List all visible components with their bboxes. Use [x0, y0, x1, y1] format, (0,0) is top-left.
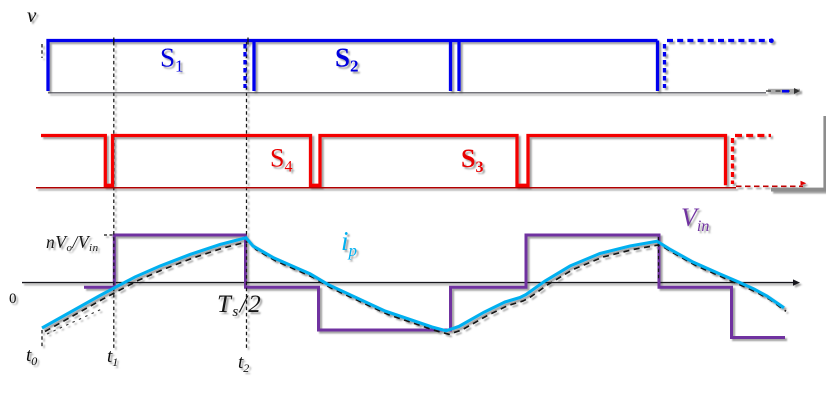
svg-text:S4: S4	[270, 144, 292, 176]
svg-text:t1: t1	[107, 346, 118, 369]
svg-text:0: 0	[9, 291, 17, 307]
svg-text:t2: t2	[238, 352, 249, 375]
svg-text:v: v	[27, 3, 37, 27]
svg-text:S3: S3	[461, 144, 483, 176]
svg-text:S1: S1	[160, 43, 184, 76]
svg-text:S2: S2	[335, 43, 359, 76]
svg-text:Ts/2: Ts/2	[217, 291, 262, 320]
svg-text:Vin: Vin	[681, 203, 709, 235]
svg-text:ip: ip	[341, 226, 357, 260]
svg-text:t0: t0	[26, 345, 37, 368]
svg-text:nVo/Vin: nVo/Vin	[46, 232, 99, 254]
